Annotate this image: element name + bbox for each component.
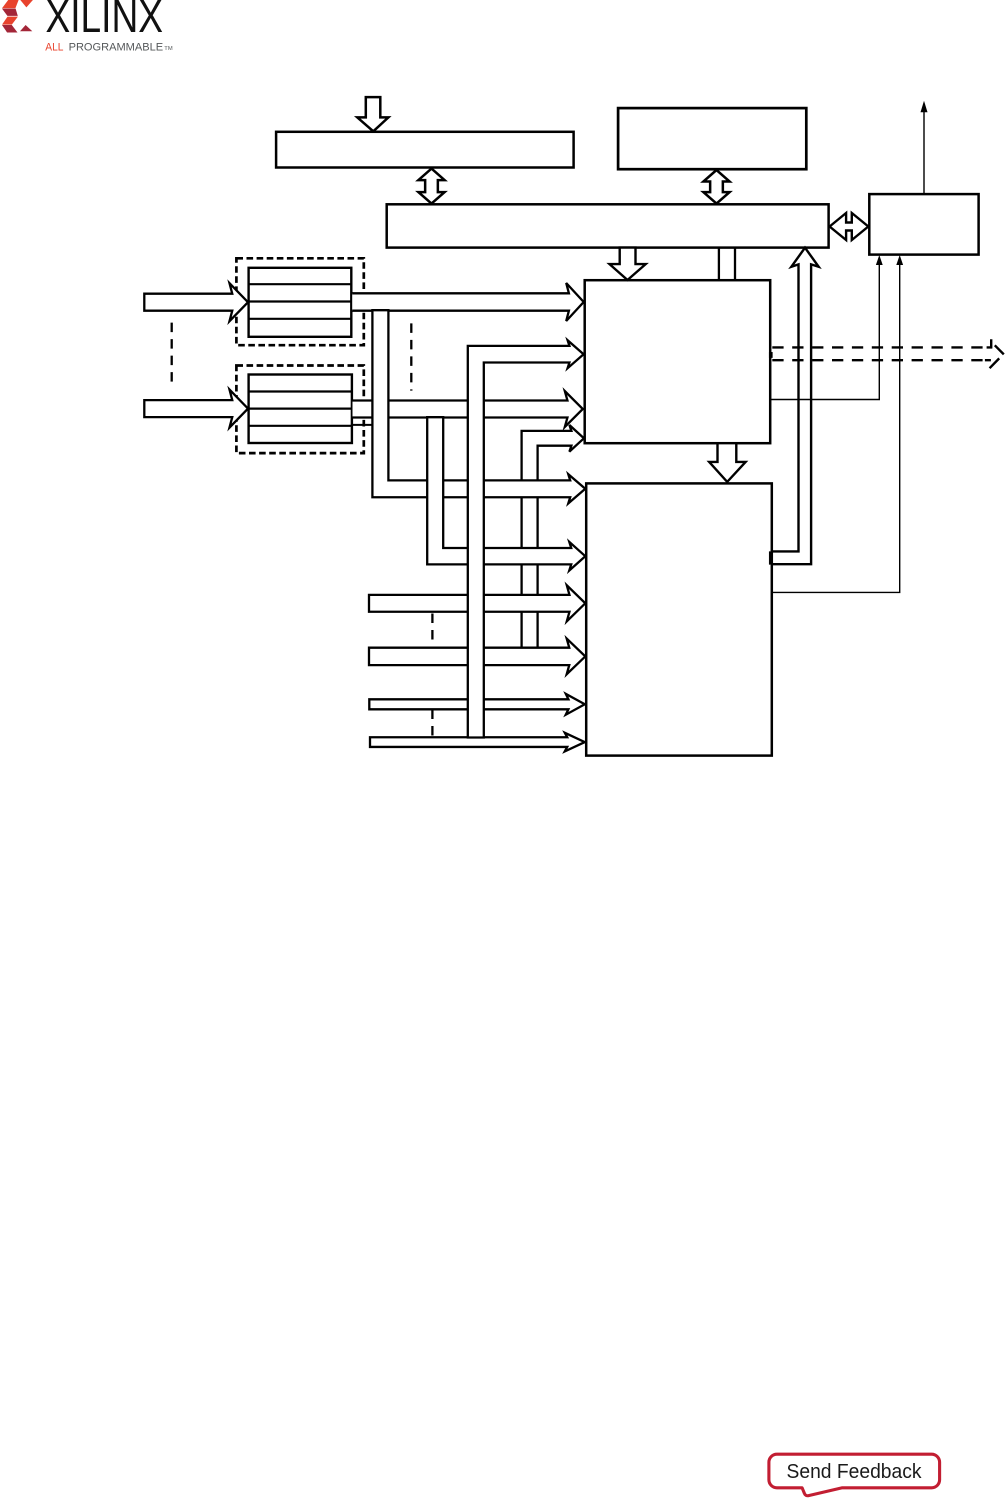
block arrow: hollow up arrow with L-bus from block 2 right side to bus bar <box>772 248 819 565</box>
connector: horizontal double-headed arrow bus-bar to right box <box>830 213 869 240</box>
block arrow Q5: thin external input arrow 5 into block 2 <box>369 694 585 715</box>
wire: output line up from small right box <box>923 112 925 195</box>
group: dashed box around striped box 1 <box>236 258 363 345</box>
mark: dashed continuation between arrows Q3 and Q4 <box>431 614 433 644</box>
wire: line pair from bus bar down to block 1 top <box>718 248 720 281</box>
wire: stripe line 3 of striped box 2 <box>249 425 352 427</box>
svg-text:PROGRAMMABLE: PROGRAMMABLE <box>69 42 164 54</box>
wire: dashed output bus from block 1 line 2 <box>772 359 991 361</box>
block arrow Q6: thin external input arrow 6 into block 2 <box>370 733 585 752</box>
block arrow P2: riser bus from bottom bus up into block 1 <box>468 340 584 737</box>
wire: stripe line 2 of striped box 1 <box>249 300 352 302</box>
block: striped box 2 <box>249 375 352 444</box>
connector: vertical double-headed arrow under top-right box <box>703 170 729 204</box>
block arrow Q1: drop bus from striped-box-1 bus into block 2 <box>372 310 585 503</box>
wire: stripe line 1 of striped box 2 <box>249 390 352 392</box>
block: top-right box <box>618 108 806 169</box>
block arrow: hollow down arrow into top-left wide box <box>357 97 388 131</box>
block: long horizontal bus bar <box>387 204 829 247</box>
junction: black tick where up-bus meets block 2 <box>769 552 772 565</box>
arrowhead: filled arrow into small box bottom from block 1 <box>876 255 883 265</box>
Xilinx logo mark: crimson triangle bottom-right <box>20 25 32 31</box>
block arrow: hollow down arrow from block 1 into block 2 <box>709 443 745 482</box>
junction: black tick where dashed bus meets block 1 <box>769 352 772 357</box>
block arrow Q2: drop bus from striped-box-2 bus into block 2 <box>427 417 585 570</box>
wire: feedback line from block 2 right edge up to small box <box>772 265 900 593</box>
block arrow Q4: external input arrow 4 into block 2 <box>369 639 585 675</box>
arrowhead: small filled up arrow on output line <box>921 101 928 112</box>
wire: stripe line 2 of striped box 2 <box>249 408 352 410</box>
block arrow: hollow down arrow from bus bar into block 1 <box>610 248 646 280</box>
block: top-left wide box <box>276 132 573 168</box>
mark: dashed continuation between the two left input arrows <box>171 323 173 387</box>
Xilinx logo mark: orange band 1 top-left <box>2 0 19 8</box>
group: dashed box around striped box 2 <box>236 366 363 454</box>
Xilinx logo mark: crimson band 2 <box>2 9 18 16</box>
wire: dashed output bus from block 1 line 1 <box>772 346 983 348</box>
Xilinx logo mark: orange triangle top-right <box>20 0 33 7</box>
wire: stripe line 3 of striped box 1 <box>249 318 352 320</box>
block arrow: left input arrow into striped box 1 <box>144 283 248 321</box>
block: small box top right <box>869 194 978 255</box>
button: Send Feedback speech bubble with tail <box>769 1454 940 1496</box>
Xilinx logo mark: crimson band 4 bottom <box>2 25 18 33</box>
svg-text:TM: TM <box>164 46 173 52</box>
block: striped box 1 <box>249 268 352 337</box>
block arrow P4: riser bus from arrow-Q4 bus up into block 1 <box>522 425 584 648</box>
mark: dashed continuation between arrows Q5 and Q6 <box>431 710 433 737</box>
block: block 2 lower large block <box>586 483 772 755</box>
wire: stub from striped box 2 to drop bus Q1 <box>352 424 372 426</box>
arrowhead: filled arrow into small box bottom from block 2 <box>896 255 903 265</box>
svg-text:ALL: ALL <box>45 42 63 54</box>
wire: stripe line 1 of striped box 1 <box>249 283 352 285</box>
block arrow: left input arrow into striped box 2 <box>144 390 248 428</box>
Xilinx logo mark: orange band 3 <box>2 17 18 25</box>
block arrow Q3: external input arrow 3 into block 2 <box>369 585 585 621</box>
wire: feedback line from block 1 right edge up to small box <box>770 265 879 400</box>
svg-text:XILINX: XILINX <box>46 0 164 42</box>
block arrow P3: striped box 2 output bus into block 1 <box>353 391 583 427</box>
connector: vertical double-headed arrow under top-left box <box>418 169 444 204</box>
arrowhead: dashed open arrow head at right page edge <box>985 339 1004 368</box>
svg-text:Send Feedback: Send Feedback <box>787 1460 923 1483</box>
mark: dashed continuation right of striped boxes <box>410 323 412 390</box>
block arrow P1: striped box 1 output bus into block 1 <box>352 283 584 321</box>
block: block 1 upper large block <box>585 280 771 443</box>
